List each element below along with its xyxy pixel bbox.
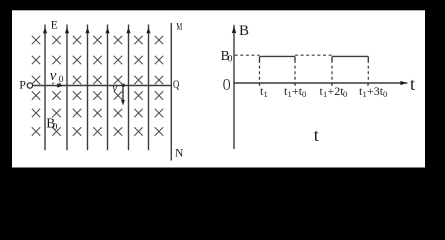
svg-text:t: t — [410, 74, 415, 94]
svg-text:0: 0 — [59, 75, 64, 85]
svg-text:0: 0 — [343, 89, 347, 99]
svg-text:B: B — [239, 23, 249, 39]
svg-text:0: 0 — [228, 55, 233, 65]
svg-text:1: 1 — [264, 89, 268, 99]
svg-text:v: v — [50, 68, 57, 84]
svg-text:+2t: +2t — [328, 84, 345, 98]
svg-text:P: P — [19, 77, 26, 91]
svg-text:M: M — [176, 21, 182, 33]
svg-text:t: t — [314, 125, 319, 145]
svg-text:0: 0 — [302, 89, 306, 99]
svg-text:0: 0 — [53, 123, 58, 133]
svg-text:O: O — [223, 75, 231, 94]
svg-text:Q: Q — [173, 77, 180, 91]
svg-text:+3t: +3t — [367, 84, 384, 98]
svg-text:0: 0 — [383, 89, 387, 99]
svg-text:v: v — [112, 83, 118, 95]
svg-text:E: E — [51, 20, 58, 32]
svg-text:N: N — [175, 148, 184, 160]
